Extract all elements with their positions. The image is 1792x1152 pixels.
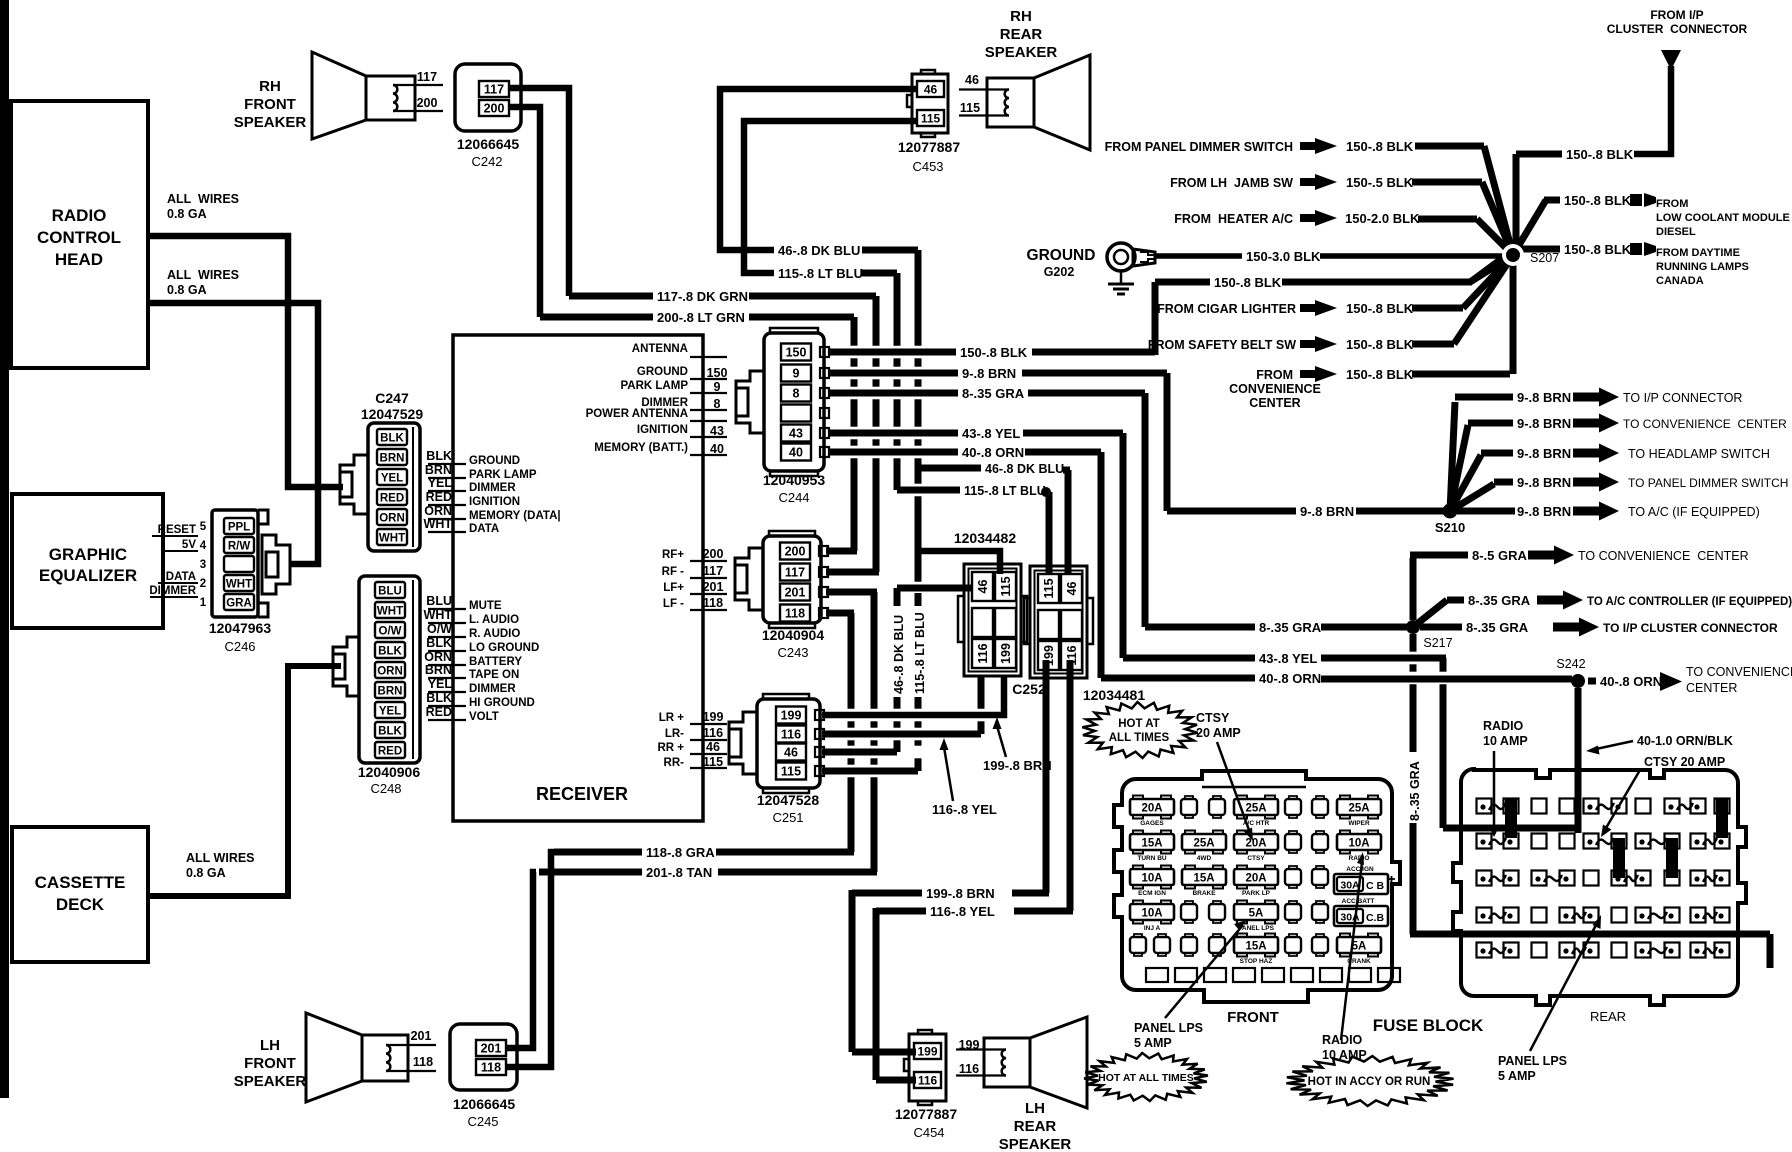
svg-text:S217: S217 [1423, 636, 1452, 650]
wire 201-.8 TAN run [539, 869, 642, 876]
svg-text:12077887: 12077887 [898, 139, 961, 155]
svg-text:9-.8 BRN: 9-.8 BRN [1517, 475, 1571, 490]
svg-text:46: 46 [976, 580, 990, 594]
svg-text:SPEAKER: SPEAKER [985, 44, 1058, 61]
svg-text:C245: C245 [467, 1114, 498, 1129]
wire 115 riser lower [915, 697, 922, 709]
svg-text:12034481: 12034481 [1083, 687, 1146, 703]
svg-text:150-.8 BLK: 150-.8 BLK [1564, 193, 1632, 208]
svg-text:CANADA: CANADA [1656, 275, 1704, 287]
svg-text:LF+: LF+ [663, 582, 684, 594]
svg-text:RECEIVER: RECEIVER [536, 784, 628, 804]
svg-text:RED: RED [378, 746, 402, 758]
svg-text:C252: C252 [1012, 681, 1046, 697]
svg-text:O/W: O/W [379, 626, 402, 638]
svg-text:GROUND: GROUND [1027, 247, 1096, 264]
wire 115 C251 stub [822, 768, 918, 775]
svg-text:O/W: O/W [427, 622, 452, 636]
svg-text:150-.8 BLK: 150-.8 BLK [1346, 139, 1414, 154]
svg-text:20A: 20A [1245, 873, 1266, 885]
svg-text:YEL: YEL [428, 677, 453, 691]
S207 branch to low coolant module [1513, 200, 1546, 255]
svg-text:BRN: BRN [378, 686, 403, 698]
svg-text:115: 115 [703, 755, 723, 769]
svg-text:R. AUDIO: R. AUDIO [469, 628, 520, 640]
svg-text:DIMMER: DIMMER [149, 585, 196, 597]
svg-text:MEMORY (DATA|: MEMORY (DATA| [469, 510, 561, 522]
svg-text:DIESEL: DIESEL [1656, 226, 1696, 238]
S210 fan wires [1450, 402, 1455, 511]
svg-text:116-.8 YEL: 116-.8 YEL [930, 904, 995, 919]
wire 116 from 12034482 to C251 [978, 676, 985, 709]
connector C246 body [212, 510, 258, 617]
svg-text:BRN: BRN [425, 463, 452, 477]
connector C245 body [450, 1024, 517, 1090]
svg-text:WHT: WHT [424, 517, 453, 531]
radio control head box [11, 101, 148, 368]
C243 mating key [735, 548, 763, 610]
svg-text:201: 201 [703, 580, 724, 594]
svg-text:25A: 25A [1348, 803, 1369, 815]
svg-text:MEMORY (BATT.): MEMORY (BATT.) [594, 442, 688, 454]
svg-text:ALL WIRES: ALL WIRES [186, 851, 255, 865]
svg-text:40-.8 ORN: 40-.8 ORN [962, 445, 1024, 460]
wire 199 from 12034482 to C251 [822, 676, 1004, 715]
cassette deck box [12, 827, 148, 962]
svg-text:9-.8 BRN: 9-.8 BRN [1517, 446, 1571, 461]
svg-text:ORN: ORN [379, 513, 405, 525]
svg-text:12066645: 12066645 [453, 1096, 516, 1112]
svg-text:43-.8 YEL: 43-.8 YEL [1259, 651, 1317, 666]
wire 46-.8 DK BLU riser [915, 250, 922, 346]
svg-text:CENTER: CENTER [1249, 396, 1300, 410]
svg-text:PANEL LPS: PANEL LPS [1498, 1054, 1567, 1068]
svg-text:150-.8 BLK: 150-.8 BLK [1564, 242, 1632, 257]
C247 mating key [340, 455, 368, 514]
svg-text:TO CONVENIENCE CENTER: TO CONVENIENCE CENTER [1578, 549, 1749, 563]
S207 branch to daytime running lamps [1520, 246, 1560, 253]
svg-text:CONTROL: CONTROL [37, 228, 121, 247]
left page edge bar [0, 0, 9, 1098]
HOT AT ALL TIMES starburst (upper) [1082, 702, 1197, 758]
svg-text:WHT: WHT [226, 579, 252, 591]
svg-text:9-.8 BRN: 9-.8 BRN [1517, 390, 1571, 405]
svg-text:IGNITION: IGNITION [637, 424, 688, 436]
svg-text:8-.35 GRA: 8-.35 GRA [1468, 593, 1531, 608]
svg-text:46: 46 [965, 73, 979, 87]
svg-text:8-.35 GRA: 8-.35 GRA [962, 386, 1025, 401]
svg-text:150-.8 BLK: 150-.8 BLK [1346, 301, 1414, 316]
svg-text:116: 116 [703, 726, 723, 740]
svg-text:INJ A: INJ A [1144, 925, 1161, 932]
svg-text:43: 43 [789, 427, 803, 441]
connector C244 body [764, 333, 824, 471]
svg-text:C251: C251 [772, 810, 803, 825]
svg-text:46-.8 DK BLU: 46-.8 DK BLU [985, 462, 1064, 476]
junction S242 [1571, 674, 1585, 688]
svg-text:200-.8 LT GRN: 200-.8 LT GRN [657, 310, 745, 325]
svg-text:VOLT: VOLT [469, 711, 499, 723]
svg-text:12077887: 12077887 [895, 1106, 958, 1122]
svg-text:GROUND: GROUND [637, 366, 688, 378]
svg-text:C242: C242 [471, 154, 502, 169]
svg-text:116: 116 [918, 1074, 938, 1088]
wire 115-.8 LT BLU jog to C252 [897, 487, 960, 494]
ground G202 ring terminal [1107, 243, 1135, 271]
svg-text:20 AMP: 20 AMP [1196, 726, 1241, 740]
svg-text:201: 201 [481, 1042, 502, 1056]
svg-text:BRAKE: BRAKE [1192, 890, 1216, 897]
svg-text:46-.8 DK BLU: 46-.8 DK BLU [778, 243, 860, 258]
svg-text:115-.8 LT BLU: 115-.8 LT BLU [964, 484, 1046, 498]
C248 mating key [333, 637, 359, 696]
svg-text:BATTERY: BATTERY [469, 656, 522, 668]
svg-text:FRONT: FRONT [244, 96, 296, 113]
C251 mating key [729, 712, 757, 774]
svg-text:150-2.0 BLK: 150-2.0 BLK [1345, 211, 1420, 226]
svg-text:150-.5 BLK: 150-.5 BLK [1346, 175, 1414, 190]
svg-text:RH: RH [259, 78, 281, 95]
svg-text:117: 117 [484, 83, 504, 97]
svg-text:150-.8 BLK: 150-.8 BLK [1566, 147, 1634, 162]
svg-text:40-.8 ORN: 40-.8 ORN [1259, 671, 1321, 686]
HOT IN ACCY OR RUN starburst [1286, 1056, 1453, 1106]
svg-text:LO GROUND: LO GROUND [469, 642, 539, 654]
svg-text:ALL WIRES: ALL WIRES [167, 268, 239, 282]
svg-text:HI GROUND: HI GROUND [469, 697, 535, 709]
rear fuse block contacts [1477, 799, 1492, 814]
svg-text:REAR: REAR [1014, 1118, 1057, 1135]
svg-text:CENTER: CENTER [1686, 681, 1737, 695]
svg-text:12047528: 12047528 [757, 792, 820, 808]
svg-text:YEL: YEL [381, 473, 403, 485]
svg-text:10A: 10A [1141, 908, 1162, 920]
svg-text:10 AMP: 10 AMP [1483, 734, 1528, 748]
front fuse block bottom strip [1146, 968, 1168, 982]
svg-text:YEL: YEL [428, 476, 453, 490]
svg-text:118: 118 [413, 1055, 433, 1069]
wire 200-.8 LT GRN label row [540, 314, 653, 321]
svg-text:BLK: BLK [426, 449, 452, 463]
connector C454 body [909, 1034, 946, 1101]
svg-text:4WD: 4WD [1197, 855, 1212, 862]
svg-text:199-.8 BRN: 199-.8 BRN [926, 886, 995, 901]
svg-text:199: 199 [917, 1045, 937, 1059]
svg-text:ANTENNA: ANTENNA [632, 343, 688, 355]
svg-text:199: 199 [703, 710, 724, 724]
svg-text:RESET: RESET [158, 524, 196, 536]
svg-text:DIMMER: DIMMER [469, 683, 516, 695]
svg-text:TURN BU: TURN BU [1137, 855, 1167, 862]
svg-text:BRN: BRN [380, 453, 405, 465]
svg-text:201: 201 [411, 1029, 432, 1043]
svg-text:30A: 30A [1340, 880, 1360, 892]
connector C252 body [1030, 566, 1087, 678]
svg-text:ALL TIMES: ALL TIMES [1109, 732, 1170, 744]
svg-text:WHT: WHT [379, 533, 405, 545]
svg-text:116-.8 YEL: 116-.8 YEL [932, 802, 997, 817]
RH rear speaker symbol [987, 78, 1034, 127]
svg-text:FROM I/P: FROM I/P [1650, 8, 1703, 22]
svg-text:TAPE ON: TAPE ON [469, 669, 519, 681]
svg-text:12040906: 12040906 [358, 764, 421, 780]
svg-text:CONVENIENCE: CONVENIENCE [1229, 382, 1321, 396]
connector C248 body [359, 576, 420, 763]
svg-text:0.8 GA: 0.8 GA [167, 207, 207, 221]
row 150-.8 BLK diagonal [1470, 255, 1513, 282]
svg-text:BRN: BRN [425, 663, 452, 677]
wire 46 riser upper stub [894, 588, 901, 606]
wire 9-.8 BRN [829, 370, 958, 377]
LH rear speaker symbol [984, 1038, 1030, 1087]
svg-text:8-.35 GRA: 8-.35 GRA [1408, 761, 1422, 821]
svg-text:40: 40 [710, 442, 724, 456]
wire 115 into 12034482 [918, 551, 1000, 574]
HOT AT ALL TIMES starburst (lower) [1084, 1053, 1208, 1101]
svg-text:201: 201 [785, 586, 806, 600]
svg-text:46: 46 [1065, 582, 1079, 596]
svg-text:FROM CIGAR LIGHTER: FROM CIGAR LIGHTER [1157, 302, 1296, 316]
wire 8-.35 GRA down to rear fuse block [1410, 634, 1417, 652]
svg-text:BLK: BLK [378, 646, 402, 658]
svg-text:ORN: ORN [424, 504, 452, 518]
wire radio control head to C247 [148, 236, 343, 487]
svg-text:117-.8 DK GRN: 117-.8 DK GRN [657, 289, 748, 304]
svg-text:DATA: DATA [469, 523, 499, 535]
wire 201 riser to TAN run [871, 592, 878, 709]
svg-text:PARK LAMP: PARK LAMP [469, 469, 537, 481]
S210 branch TO PANEL DIMMER SWITCH [1494, 479, 1513, 486]
svg-text:RUNNING LAMPS: RUNNING LAMPS [1656, 261, 1749, 273]
svg-text:118: 118 [703, 596, 723, 610]
svg-text:C243: C243 [777, 645, 808, 660]
svg-text:8-.5 GRA: 8-.5 GRA [1472, 548, 1528, 563]
svg-text:46: 46 [924, 83, 938, 97]
svg-text:115-.8 LT BLU: 115-.8 LT BLU [913, 612, 927, 694]
svg-text:CLUSTER CONNECTOR: CLUSTER CONNECTOR [1607, 22, 1748, 36]
wire 46 into 12034482 [897, 585, 972, 592]
connector C453 body [912, 74, 948, 133]
wire 115 riser upper stub [915, 593, 922, 606]
svg-text:FRONT: FRONT [1227, 1009, 1279, 1026]
svg-text:199: 199 [781, 709, 802, 723]
svg-text:IGNITION: IGNITION [469, 496, 520, 508]
svg-text:FROM HEATER A/C: FROM HEATER A/C [1174, 212, 1293, 226]
svg-text:201-.8 TAN: 201-.8 TAN [646, 865, 712, 880]
svg-text:199: 199 [959, 1038, 980, 1052]
connector C251 body [757, 699, 820, 788]
svg-text:TO HEADLAMP SWITCH: TO HEADLAMP SWITCH [1628, 447, 1770, 461]
svg-text:5 AMP: 5 AMP [1498, 1069, 1536, 1083]
svg-text:YEL: YEL [379, 706, 401, 718]
rear fuse block installed fuses (dark bars) [1505, 798, 1517, 838]
svg-text:RED: RED [380, 493, 404, 505]
wire cassette deck to C248 [148, 666, 341, 896]
svg-text:9: 9 [793, 367, 800, 381]
wire 46 riser lower [894, 697, 901, 709]
svg-text:RADIO: RADIO [52, 206, 107, 225]
junction S217 [1406, 620, 1420, 634]
S217 branch 8-.35 GRA to I/P cluster [1420, 624, 1462, 631]
svg-text:150-.8 BLK: 150-.8 BLK [1346, 367, 1414, 382]
receiver box [453, 335, 703, 821]
S210 branch TO CONVENIENCE CENTER [1468, 420, 1513, 427]
svg-text:FROM: FROM [1256, 368, 1293, 382]
C246 mating key [262, 535, 290, 594]
LH front speaker symbol [362, 1035, 408, 1081]
graphic equalizer box [12, 494, 163, 628]
svg-text:LR-: LR- [665, 728, 684, 740]
svg-text:199: 199 [999, 643, 1013, 664]
svg-text:TO A/C (IF EQUIPPED): TO A/C (IF EQUIPPED) [1628, 505, 1760, 519]
svg-text:200: 200 [785, 545, 806, 559]
wire 150-.8 BLK [829, 349, 956, 356]
svg-text:TO CONVENIENCE CENTER: TO CONVENIENCE CENTER [1623, 417, 1787, 431]
svg-text:EQUALIZER: EQUALIZER [39, 566, 137, 585]
svg-text:116: 116 [959, 1062, 979, 1076]
svg-text:150-.8 BLK: 150-.8 BLK [1214, 275, 1282, 290]
svg-text:FROM LH JAMB SW: FROM LH JAMB SW [1170, 176, 1293, 190]
svg-text:BLK: BLK [378, 726, 402, 738]
svg-text:ECM IGN: ECM IGN [1138, 890, 1166, 897]
svg-text:LH: LH [260, 1037, 280, 1054]
svg-text:DATA: DATA [166, 571, 196, 583]
svg-text:PARK LP: PARK LP [1242, 890, 1271, 897]
svg-text:RED: RED [426, 490, 452, 504]
wire 200 C242 to LT GRN row [509, 107, 540, 317]
svg-text:G202: G202 [1044, 265, 1075, 279]
svg-text:12066645: 12066645 [457, 136, 520, 152]
svg-text:10A: 10A [1348, 838, 1369, 850]
svg-text:12040953: 12040953 [763, 472, 826, 488]
svg-text:115: 115 [781, 765, 801, 779]
svg-text:8-.35 GRA: 8-.35 GRA [1466, 620, 1529, 635]
wire 115-.8 LT BLU riser [894, 273, 901, 346]
svg-text:115: 115 [921, 112, 941, 126]
svg-text:12034482: 12034482 [954, 530, 1017, 546]
svg-text:115: 115 [960, 101, 980, 115]
S210 branch TO I/P CONNECTOR [1455, 394, 1513, 401]
svg-text:PPL: PPL [228, 522, 250, 534]
svg-text:GROUND: GROUND [469, 455, 520, 467]
S210 branch TO HEADLAMP SWITCH [1481, 450, 1513, 457]
svg-text:15A: 15A [1193, 873, 1214, 885]
ground G202 earth symbol [1120, 271, 1123, 283]
front fuse block fuses [1130, 799, 1174, 815]
svg-text:9-.8 BRN: 9-.8 BRN [1300, 504, 1354, 519]
svg-text:115: 115 [999, 576, 1013, 596]
svg-text:150-3.0 BLK: 150-3.0 BLK [1246, 249, 1321, 264]
svg-text:0.8 GA: 0.8 GA [186, 866, 226, 880]
svg-text:115: 115 [1042, 578, 1056, 598]
svg-text:HEAD: HEAD [55, 250, 103, 269]
junction S207 [1502, 244, 1524, 266]
svg-text:C248: C248 [370, 781, 401, 796]
svg-text:ORN: ORN [377, 666, 403, 678]
svg-text:R/W: R/W [228, 541, 251, 553]
svg-text:LF -: LF - [663, 598, 684, 610]
svg-text:8-.35 GRA: 8-.35 GRA [1259, 620, 1322, 635]
svg-text:S242: S242 [1556, 657, 1585, 671]
svg-text:BLU: BLU [426, 594, 452, 608]
svg-text:WHT: WHT [424, 608, 453, 622]
svg-text:5V: 5V [182, 539, 196, 551]
svg-text:199-.8 BRN: 199-.8 BRN [983, 758, 1052, 773]
svg-text:RADIO: RADIO [1483, 719, 1524, 733]
svg-text:CASSETTE: CASSETTE [35, 873, 126, 892]
wire 46 C251 stub [822, 749, 897, 756]
svg-text:LH: LH [1025, 1100, 1045, 1117]
svg-text:1: 1 [200, 597, 207, 609]
svg-text:GAGES: GAGES [1140, 820, 1164, 827]
svg-text:ORN: ORN [424, 650, 452, 664]
front fuse block outline [1114, 771, 1400, 1002]
svg-text:15A: 15A [1141, 838, 1162, 850]
svg-text:PARK LAMP: PARK LAMP [620, 380, 688, 392]
svg-text:TO PANEL DIMMER SWITCH: TO PANEL DIMMER SWITCH [1628, 476, 1788, 490]
svg-text:FROM PANEL DIMMER SWITCH: FROM PANEL DIMMER SWITCH [1105, 140, 1293, 154]
svg-text:L. AUDIO: L. AUDIO [469, 614, 519, 626]
svg-text:C.B: C.B [1366, 912, 1385, 924]
svg-text:118: 118 [481, 1061, 501, 1075]
svg-text:HOT IN ACCY OR RUN: HOT IN ACCY OR RUN [1308, 1076, 1431, 1088]
svg-text:40: 40 [789, 446, 803, 460]
svg-text:10A: 10A [1141, 873, 1162, 885]
svg-text:5 AMP: 5 AMP [1134, 1036, 1172, 1050]
svg-text:WHT: WHT [377, 606, 403, 618]
svg-text:9-.8 BRN: 9-.8 BRN [962, 366, 1016, 381]
connector C247 body [368, 423, 420, 551]
svg-text:20A: 20A [1141, 803, 1162, 815]
svg-text:CTSY: CTSY [1196, 711, 1230, 725]
svg-text:8: 8 [714, 397, 721, 411]
svg-text:SPEAKER: SPEAKER [999, 1136, 1072, 1152]
svg-text:BLU: BLU [378, 586, 402, 598]
svg-text:43-.8 YEL: 43-.8 YEL [962, 426, 1020, 441]
svg-text:46: 46 [706, 740, 720, 754]
svg-text:43: 43 [710, 424, 724, 438]
svg-text:118-.8 GRA: 118-.8 GRA [646, 845, 715, 860]
wire 8-.35 GRA [829, 390, 958, 397]
svg-text:FROM: FROM [1656, 198, 1688, 210]
svg-text:117: 117 [417, 70, 437, 84]
svg-text:12047963: 12047963 [209, 620, 272, 636]
svg-text:BLK: BLK [380, 433, 404, 445]
svg-text:C453: C453 [912, 159, 943, 174]
S217 branch 8-.5 GRA [1410, 558, 1417, 620]
svg-text:0.8 GA: 0.8 GA [167, 283, 207, 297]
svg-text:RR-: RR- [664, 757, 685, 769]
svg-text:FRONT: FRONT [244, 1055, 296, 1072]
svg-text:9-.8 BRN: 9-.8 BRN [1517, 504, 1571, 519]
wire 40-.8 ORN [829, 449, 958, 456]
svg-text:PANEL LPS: PANEL LPS [1134, 1021, 1203, 1035]
svg-text:200: 200 [484, 102, 505, 116]
svg-text:117: 117 [785, 566, 805, 580]
svg-text:46: 46 [784, 746, 798, 760]
wire 117-.8 DK GRN label row [569, 293, 653, 300]
wire 40 ORN down into rear block [1575, 688, 1582, 833]
svg-text:RF -: RF - [662, 566, 685, 578]
svg-text:RED: RED [426, 705, 452, 719]
svg-text:150-.8 BLK: 150-.8 BLK [960, 345, 1028, 360]
svg-text:ALL WIRES: ALL WIRES [167, 192, 239, 206]
svg-text:TO A/C CONTROLLER (IF EQUIPPED: TO A/C CONTROLLER (IF EQUIPPED) [1587, 596, 1792, 608]
svg-text:RH: RH [1010, 8, 1032, 25]
svg-text:S210: S210 [1435, 520, 1465, 535]
svg-text:20A: 20A [1245, 838, 1266, 850]
RH front speaker symbol [366, 76, 415, 120]
